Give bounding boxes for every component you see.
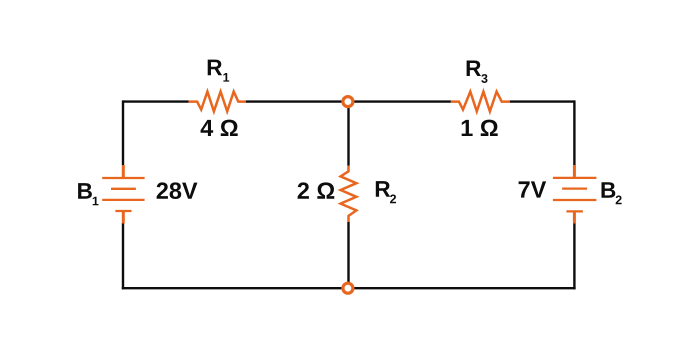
wire bottom (full width through node B) (122, 287, 576, 289)
label R3 (467, 60, 488, 82)
value 4 ohm (R1) (201, 120, 238, 136)
wire top-left (left corner to R1) (123, 100, 189, 102)
wire top-middle (R1 to R3 through node A) (246, 100, 451, 102)
wire middle upper (node A down to R2) (347, 102, 349, 166)
battery B1 (102, 165, 144, 224)
wire left lower (B1 down to bottom corner) (122, 223, 124, 290)
label B2 (602, 182, 622, 204)
node B (bottom junction) (343, 283, 353, 293)
label R1 (208, 60, 229, 82)
resistor R3 (451, 92, 510, 112)
label R2 (376, 181, 396, 203)
node A (top junction) (343, 97, 353, 107)
wire right lower (B2 down to bottom corner) (573, 223, 575, 290)
wire left upper (corner down to B1) (122, 100, 124, 165)
resistor R2 (vertical) (341, 166, 357, 222)
label B1 (78, 183, 98, 205)
value 2 ohm (R2) (298, 182, 335, 198)
resistor R1 (189, 92, 246, 112)
battery B2 (553, 165, 597, 224)
value 28V (B1) (157, 182, 198, 199)
wire right upper (corner down to B2) (573, 100, 575, 165)
value 7V (B2) (519, 181, 547, 197)
value 1 ohm (R3) (462, 120, 498, 136)
wire middle lower (R2 down to node B) (347, 222, 349, 288)
wire top-right (R3 to right corner) (510, 100, 575, 102)
